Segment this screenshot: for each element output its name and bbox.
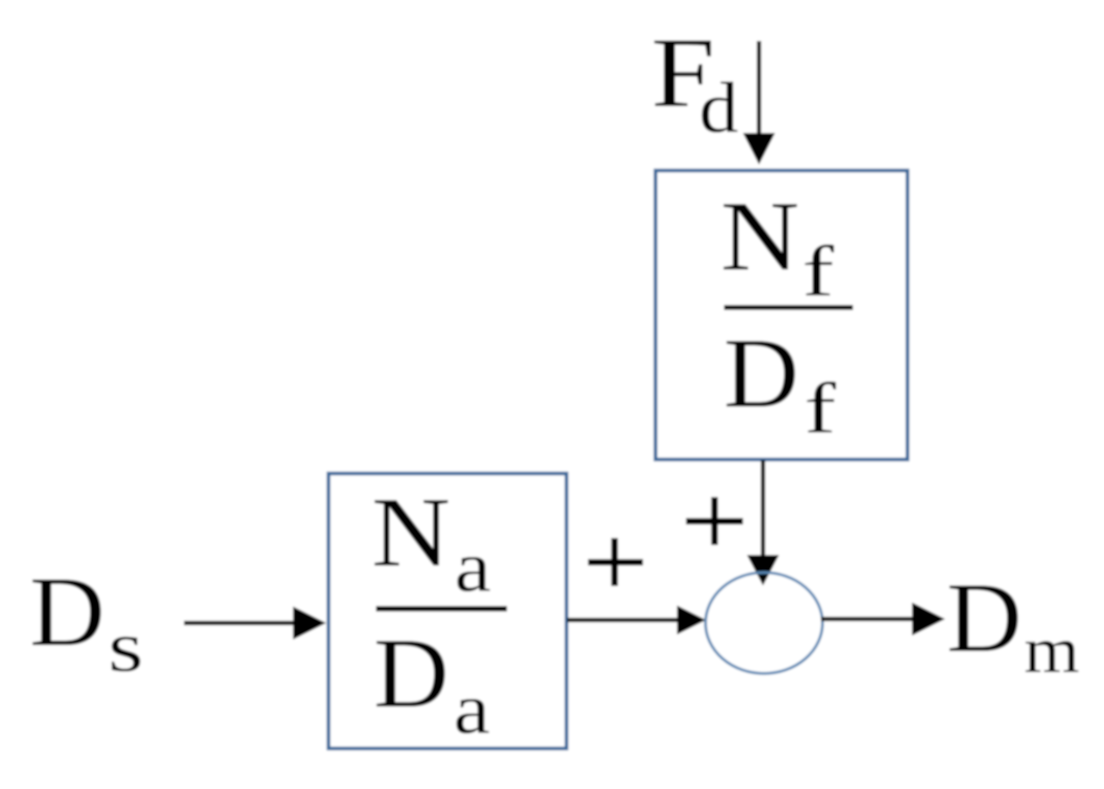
svg-text:f: f — [802, 231, 834, 311]
svg-text:a: a — [455, 527, 492, 607]
fraction bar of top block — [724, 305, 853, 310]
wire: bottom block output into summing junction — [567, 606, 706, 635]
svg-text:D: D — [30, 556, 106, 667]
svg-text:a: a — [454, 669, 491, 749]
block Nf/Df (feedforward transfer function) — [656, 171, 908, 460]
svg-text:m: m — [1024, 614, 1080, 687]
label Fd (disturbance input) — [651, 17, 739, 148]
svg-text:D: D — [724, 318, 800, 429]
value label Na (numerator of bottom block) — [372, 477, 492, 608]
svg-text:s: s — [108, 607, 144, 687]
svg-text:N: N — [372, 477, 451, 588]
block Na/Da (plant transfer function) — [329, 474, 567, 749]
plus sign at vertical summing input — [686, 497, 743, 545]
plus sign at horizontal summing input — [588, 538, 643, 586]
svg-text:D: D — [374, 618, 450, 729]
label Ds (source input) — [30, 556, 144, 687]
wire: Fd input arrow into top block — [743, 41, 775, 165]
wire: top block output down into summing junction — [747, 460, 779, 586]
svg-text:d: d — [699, 68, 739, 148]
svg-text:f: f — [804, 368, 836, 448]
value label Nf (numerator of top block) — [721, 181, 835, 312]
svg-text:N: N — [721, 181, 800, 292]
fraction bar of bottom block — [376, 606, 507, 612]
label Dm (measured output) — [947, 562, 1080, 687]
wire: Ds input arrow into bottom block — [184, 607, 326, 640]
value label Df (denominator of top block) — [724, 318, 837, 449]
value label Da (denominator of bottom block) — [374, 618, 491, 750]
summing junction circle — [706, 573, 823, 674]
wire: summing junction output arrow to Dm — [821, 603, 945, 636]
svg-text:D: D — [947, 562, 1023, 673]
